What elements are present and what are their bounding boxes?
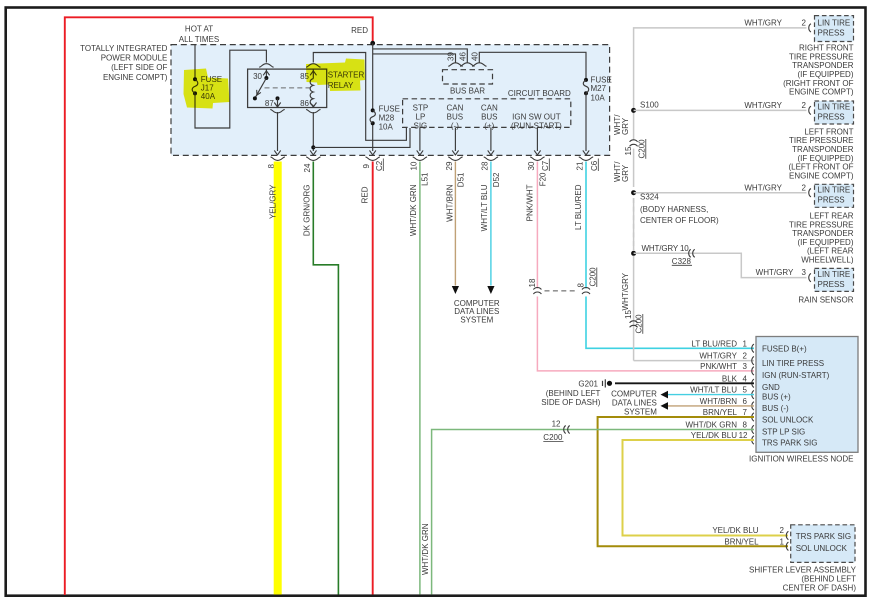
node pin 1 FUSED B(+) [692, 339, 808, 353]
svg-text:ALL TIMES: ALL TIMES [179, 35, 219, 44]
svg-text:DATA LINES: DATA LINES [612, 398, 657, 407]
svg-text:GRY: GRY [621, 117, 630, 135]
TIPM pin 24 exit cup [306, 157, 320, 161]
svg-text:(LEFT FRONT OF: (LEFT FRONT OF [788, 163, 853, 172]
fuse M27 10A [583, 78, 588, 95]
splice S100 [631, 101, 659, 113]
wire DK GRN/ORG (TIPM pin 24 to bottom with jog) [313, 162, 338, 595]
label CAN BUS (-) [446, 104, 463, 131]
svg-text:WHT/LT BLU: WHT/LT BLU [690, 386, 737, 395]
svg-text:CENTER OF FLOOR): CENTER OF FLOOR) [640, 216, 719, 225]
label pin 29 [445, 161, 454, 170]
connector C200 pin 12 on WHT/DK GRN wire [552, 420, 570, 434]
svg-text:(LEFT REAR: (LEFT REAR [807, 247, 854, 256]
label CAN BUS (+) [481, 104, 498, 131]
svg-text:C200: C200 [543, 433, 563, 442]
svg-text:STP LP SIG: STP LP SIG [762, 427, 805, 436]
svg-text:CIRCUIT BOARD: CIRCUIT BOARD [508, 89, 571, 98]
bus bar pin 39 terminal arch [448, 63, 462, 66]
svg-text:(BODY HARNESS,: (BODY HARNESS, [640, 205, 708, 214]
svg-text:LIN TIRE: LIN TIRE [818, 186, 851, 195]
svg-text:21: 21 [576, 161, 585, 170]
bus bar pin 40 terminal arch [472, 63, 486, 66]
wire bus bar pin 40 to fuse M27 [479, 52, 586, 79]
svg-text:C7: C7 [541, 160, 550, 171]
svg-text:WHT/GRY: WHT/GRY [699, 351, 737, 360]
svg-text:1: 1 [780, 537, 785, 546]
relay pin 87 stub with arrow [274, 96, 280, 107]
wire S100 to left front transponder [634, 109, 807, 111]
label left rear transponder caption [789, 212, 854, 265]
connector arc rain sensor pin 3 [809, 273, 811, 281]
label IGN SW OUT (RUN-START) [511, 113, 562, 131]
svg-text:FUSE: FUSE [379, 105, 400, 114]
svg-text:(BEHIND LEFT: (BEHIND LEFT [801, 574, 856, 583]
svg-text:RED: RED [361, 186, 370, 203]
label pin 30 [527, 161, 536, 170]
label WHT/BRN (rotated) [446, 184, 455, 222]
label CIRCUIT BOARD [508, 89, 571, 98]
connector arc left rear transponder pin 2 [809, 189, 811, 197]
relay mechanical link (dashed) [265, 87, 312, 89]
TIPM pin 29 exit cup [448, 157, 462, 161]
svg-text:DK GRN/ORG: DK GRN/ORG [303, 185, 312, 237]
svg-text:M28: M28 [379, 114, 395, 123]
svg-text:LIN TIRE: LIN TIRE [818, 18, 851, 27]
TIPM pin 28 exit cup [484, 157, 498, 161]
wire RED battery feed (left/top routing) [65, 17, 373, 595]
wire BRN/YEL sol unlock (node pin 7 to shifter pin 1) [598, 417, 788, 546]
svg-text:COMPUTER: COMPUTER [611, 389, 657, 398]
svg-text:RAIN SENSOR: RAIN SENSOR [798, 296, 853, 305]
label pin 40 (rotated) [470, 52, 479, 61]
wire YEL/DK BLU trs park sig (node pin 12 to shifter pin 2) [623, 440, 789, 536]
wire BLK ground from G201 to node pin 4 [615, 382, 754, 384]
connector C200 dashed bridge line [545, 290, 577, 292]
label pin 39 (rotated) [447, 52, 456, 61]
svg-text:28: 28 [480, 161, 489, 170]
label connector C200 (rotated, underlined) lower [634, 314, 643, 334]
relay label 87 [265, 99, 274, 108]
svg-text:LT BLU/RED: LT BLU/RED [692, 339, 738, 348]
label STARTER RELAY [328, 70, 365, 90]
svg-text:3: 3 [802, 268, 807, 277]
node RED junction dot on TIPM border [370, 41, 375, 46]
fuse J17 40A [192, 77, 198, 95]
svg-text:BUS BAR: BUS BAR [450, 87, 485, 96]
node pin 2 LIN TIRE PRESS [699, 351, 824, 367]
wire hot-at-all-times feed into fuse J17 [194, 45, 196, 79]
label DK GRN/ORG (rotated) [303, 185, 312, 237]
svg-text:TRS PARK SIG: TRS PARK SIG [762, 439, 817, 448]
label WHT/GRY left front pin 2 [744, 101, 806, 110]
wire relay pin 85 feed from red junction [313, 53, 406, 141]
label TOTALLY INTEGRATED POWER MODULE [80, 44, 168, 82]
label circuit F20 (rotated) [539, 172, 548, 186]
node pin 8 STP LP SIG [685, 421, 805, 437]
label IGNITION WIRELESS NODE [749, 455, 853, 464]
fuse M28 10A [370, 108, 375, 125]
label WHT/GRY left rear pin 2 [744, 183, 806, 192]
label WHT/ GRY (rotated, above C200) [613, 114, 630, 135]
TIPM pin 10 exit cup [413, 157, 427, 161]
svg-text:10A: 10A [379, 123, 394, 132]
svg-text:BLK: BLK [722, 374, 738, 383]
svg-text:TIRE PRESSURE: TIRE PRESSURE [789, 52, 853, 61]
module SHIFTER LEVER ASSEMBLY box [791, 525, 855, 563]
label HOT AT ALL TIMES [179, 24, 219, 44]
svg-text:WHT/GRY: WHT/GRY [621, 272, 630, 310]
wire RED (TIPM pin 9 to bottom) [372, 162, 374, 595]
svg-text:LEFT FRONT: LEFT FRONT [804, 127, 853, 136]
svg-text:PNK/WHT: PNK/WHT [526, 184, 535, 221]
arrow CAN(-) to computer data lines [452, 286, 459, 294]
svg-text:BUS: BUS [481, 113, 497, 122]
label pin 28 [480, 161, 489, 170]
svg-text:LIN TIRE PRESS: LIN TIRE PRESS [762, 359, 824, 368]
wire S324 to left rear transponder [634, 192, 807, 194]
svg-text:1: 1 [743, 339, 748, 348]
circuit board box [403, 99, 571, 128]
wire fuse M27 down to TIPM pin 21 [583, 93, 589, 155]
svg-text:WHT/BRN: WHT/BRN [700, 397, 738, 406]
svg-text:L51: L51 [421, 172, 430, 186]
svg-text:TRANSPONDER: TRANSPONDER [792, 229, 854, 238]
transponder box left front (LIN TIRE PRESS) [815, 101, 854, 124]
wire WHT/DK GRN stop lamp signal (TIPM pin 10 to bottom) [419, 162, 421, 595]
svg-text:PRESS: PRESS [818, 280, 845, 289]
svg-text:15: 15 [624, 146, 633, 155]
svg-text:24: 24 [303, 163, 312, 172]
TIPM pin 8 exit cup [271, 157, 285, 161]
svg-text:BRN/YEL: BRN/YEL [703, 408, 738, 417]
node pin 4 GND [722, 374, 780, 392]
relay label 86 [300, 99, 309, 108]
svg-text:2: 2 [802, 183, 807, 192]
svg-text:C200: C200 [637, 139, 646, 159]
svg-text:10: 10 [409, 161, 418, 170]
svg-text:S100: S100 [640, 101, 659, 110]
label SHIFTER LEVER ASSEMBLY caption [749, 565, 857, 592]
wire red junction to bus bar pin 46 [373, 49, 468, 63]
relay switch blade 30-87 [253, 78, 267, 100]
svg-text:3: 3 [743, 362, 748, 371]
transponder box left rear (LIN TIRE PRESS) [815, 184, 854, 207]
svg-text:9: 9 [362, 164, 371, 169]
svg-text:SYSTEM: SYSTEM [460, 315, 493, 324]
module IGNITION WIRELESS NODE box [756, 337, 858, 453]
svg-text:(+): (+) [484, 122, 494, 131]
svg-text:WHT/LT BLU: WHT/LT BLU [480, 184, 489, 231]
label WHT/LT BLU (rotated) [480, 184, 489, 231]
svg-text:F20: F20 [539, 172, 548, 186]
wire fuse J17 output to relay pin 30 [195, 50, 266, 128]
svg-text:(RIGHT FRONT OF: (RIGHT FRONT OF [783, 79, 853, 88]
relay coil 85-86 [310, 69, 316, 107]
svg-text:M27: M27 [591, 84, 607, 93]
svg-text:SHIFTER LEVER ASSEMBLY: SHIFTER LEVER ASSEMBLY [749, 565, 857, 574]
svg-text:PRESS: PRESS [818, 196, 845, 205]
svg-text:PRESS: PRESS [818, 112, 845, 121]
svg-text:PRESS: PRESS [818, 28, 845, 37]
svg-text:WHEELWELL): WHEELWELL) [801, 256, 854, 265]
relay K starter relay box [248, 69, 327, 107]
relay pin 85 terminal arch [306, 64, 320, 67]
svg-text:SOL UNLOCK: SOL UNLOCK [762, 415, 814, 424]
label RED (rotated) [361, 186, 370, 203]
wire red junction down to fuse M28 and TIPM pin 9 [370, 43, 376, 155]
wire WHT/DK GRN stop lamp sig (node pin 8 to bottom left) [432, 430, 754, 595]
label connector C2 (rotated, underlined) [375, 159, 384, 172]
wire red junction to bus bar pin 39 [373, 54, 456, 63]
label COMPUTER DATA LINES SYSTEM (under CAN arrows) [454, 299, 500, 324]
label WHT/GRY 10 at C328 [642, 244, 690, 253]
wire YEL/GRY thick (TIPM pin 8 to bottom) [274, 162, 282, 595]
label pin 9 [362, 164, 371, 169]
label right front transponder caption [783, 44, 854, 97]
svg-text:39: 39 [447, 52, 456, 61]
wire circuit board STP LP SIG to TIPM pin 10 [417, 127, 423, 154]
svg-text:YEL/GRY: YEL/GRY [269, 184, 278, 219]
svg-text:YEL/DK BLU: YEL/DK BLU [691, 431, 737, 440]
label LT BLU/RED (rotated) [574, 184, 583, 230]
label connector C328 (underlined) [672, 257, 692, 266]
svg-text:87: 87 [265, 99, 274, 108]
svg-text:WHT/GRY: WHT/GRY [744, 183, 782, 192]
arrow CAN(+) to computer data lines [487, 286, 494, 294]
svg-text:WHT/DK GRN: WHT/DK GRN [685, 421, 737, 430]
svg-text:2: 2 [743, 351, 748, 360]
svg-text:WHT/GRY: WHT/GRY [744, 18, 782, 27]
label PNK/WHT (rotated) [526, 184, 535, 221]
svg-text:C200: C200 [634, 314, 643, 334]
svg-text:IGNITION WIRELESS NODE: IGNITION WIRELESS NODE [749, 455, 853, 464]
svg-text:SYSTEM: SYSTEM [624, 407, 657, 416]
bus bar box [443, 70, 493, 84]
svg-text:18: 18 [528, 278, 537, 287]
label pin 46 (rotated) [458, 52, 467, 61]
svg-text:(LEFT SIDE OF: (LEFT SIDE OF [111, 63, 167, 72]
svg-text:46: 46 [458, 52, 467, 61]
sensor box rain sensor (LIN TIRE PRESS) [815, 268, 854, 291]
svg-text:7: 7 [743, 408, 748, 417]
svg-text:(IF EQUIPPED): (IF EQUIPPED) [797, 70, 853, 79]
svg-text:2: 2 [780, 526, 785, 535]
label left front transponder caption [788, 127, 853, 180]
svg-text:30: 30 [527, 161, 536, 170]
node pin 5 BUS (+) [690, 386, 791, 402]
wire WHT/LT BLU bus+ to computer data lines arrow [668, 394, 754, 396]
svg-text:LIN TIRE: LIN TIRE [818, 270, 851, 279]
label connector C200 (rotated, underlined) at LT BLU/RED [588, 267, 597, 287]
node pin 3 IGN (RUN-START) [700, 362, 829, 380]
svg-text:FUSED B(+): FUSED B(+) [762, 345, 807, 354]
svg-text:HOT AT: HOT AT [185, 24, 213, 33]
label connector C200 (rotated, underlined) on LIN bus [637, 139, 646, 159]
label connector C7 (rotated, underlined) [541, 159, 550, 172]
svg-text:2: 2 [802, 18, 807, 27]
label connector C200 (underlined) on WHT/DK GRN [543, 433, 563, 442]
label pin 24 [303, 163, 312, 172]
label BUS BAR [450, 87, 485, 96]
wire circuit board IGN SW OUT to TIPM pin 30 [534, 127, 540, 154]
relay pin 30 wire stub and arrow [263, 69, 269, 80]
label WHT/GRY (rotated, below C328 dot) [621, 272, 630, 310]
wire circuit board CAN(+) to TIPM pin 28 [488, 127, 494, 154]
svg-text:ENGINE COMPT): ENGINE COMPT) [789, 171, 854, 180]
svg-text:LIN TIRE: LIN TIRE [818, 102, 851, 111]
relay pin 87 exit cup [270, 109, 284, 113]
TIPM pin 30 exit cup [530, 157, 544, 161]
svg-text:TRS PARK SIG: TRS PARK SIG [796, 532, 851, 541]
label circuit D51 (rotated) [457, 172, 466, 187]
svg-text:CAN: CAN [446, 104, 463, 113]
label RAIN SENSOR caption [798, 296, 853, 305]
svg-text:C2: C2 [375, 160, 384, 171]
svg-text:C200: C200 [588, 267, 597, 287]
label WHT/DK GRN lower (rotated) [421, 523, 430, 575]
shifter pin 2 TRS PARK SIG [712, 526, 851, 541]
label circuit L51 (rotated) [421, 172, 430, 186]
wire LT BLU/RED fused B+ (TIPM pin 21 down through C200 to node pin 1) [586, 162, 754, 349]
svg-text:YEL/DK BLU: YEL/DK BLU [712, 526, 758, 535]
highlight marker over STARTER RELAY [306, 59, 365, 92]
svg-text:86: 86 [300, 99, 309, 108]
label G201 (BEHIND LEFT SIDE OF DASH) [541, 379, 600, 407]
svg-text:G201: G201 [578, 379, 598, 388]
relay label 85 [300, 72, 309, 81]
highlight marker over fuse J17 [184, 69, 230, 109]
arrow bus+ to computer data lines [661, 391, 669, 399]
label FUSE J17 40A [201, 75, 222, 101]
label COMPUTER DATA LINES SYSTEM (node side) [611, 389, 657, 416]
connector arc right front transponder pin 2 [809, 24, 811, 32]
svg-text:TIRE PRESSURE: TIRE PRESSURE [789, 220, 853, 229]
svg-text:WHT/GRY 10: WHT/GRY 10 [642, 244, 690, 253]
connector C200 pin 15 on LIN bus [624, 140, 638, 156]
svg-text:CAN: CAN [481, 104, 498, 113]
wire WHT/GRY LIN bus main vertical [634, 28, 807, 361]
svg-text:BUS (+): BUS (+) [762, 393, 791, 402]
svg-text:S324: S324 [640, 193, 659, 202]
svg-text:STP: STP [413, 104, 429, 113]
svg-text:CENTER OF DASH): CENTER OF DASH) [783, 583, 857, 592]
connector arc left front transponder pin 2 [809, 106, 811, 114]
svg-text:TRANSPONDER: TRANSPONDER [792, 145, 854, 154]
svg-text:TRANSPONDER: TRANSPONDER [792, 61, 854, 70]
svg-text:ENGINE COMPT): ENGINE COMPT) [789, 88, 854, 97]
svg-text:SOL UNLOCK: SOL UNLOCK [796, 544, 848, 553]
wire C328 branch to rain sensor [634, 253, 807, 277]
label pin 8 [267, 164, 276, 169]
label YEL/GRY (rotated) [269, 184, 278, 219]
svg-text:LT BLU/RED: LT BLU/RED [574, 184, 583, 230]
svg-text:IGN SW OUT: IGN SW OUT [512, 113, 561, 122]
wire WHT/BRN bus- to computer data lines arrow [668, 405, 754, 407]
bus bar pin 46 terminal arch [460, 63, 474, 66]
svg-text:D52: D52 [492, 172, 501, 187]
relay label 30 [253, 72, 262, 81]
svg-text:29: 29 [445, 161, 454, 170]
label RED [351, 26, 368, 35]
svg-text:WHT/GRY: WHT/GRY [744, 101, 782, 110]
svg-text:6: 6 [743, 397, 748, 406]
svg-text:30: 30 [253, 72, 262, 81]
connector C328 symbol [689, 249, 695, 257]
svg-text:40: 40 [470, 52, 479, 61]
label pin 21 [576, 161, 585, 170]
svg-text:4: 4 [743, 374, 748, 383]
svg-text:WHT/DK GRN: WHT/DK GRN [409, 184, 418, 236]
svg-text:5: 5 [743, 386, 748, 395]
svg-text:(RUN-START): (RUN-START) [511, 122, 562, 131]
svg-text:D51: D51 [457, 172, 466, 187]
label connector C6 (rotated, underlined) [590, 159, 599, 172]
label STP LP SIG [413, 104, 429, 131]
ground G201 symbol [603, 379, 613, 387]
transponder box right front (LIN TIRE PRESS) [815, 16, 854, 42]
svg-text:PNK/WHT: PNK/WHT [700, 362, 737, 371]
connector C200 pin 18 on PNK/WHT wire [528, 278, 542, 294]
svg-text:12: 12 [739, 431, 748, 440]
svg-text:BRN/YEL: BRN/YEL [724, 537, 759, 546]
relay pin 86 exit cup [306, 109, 320, 113]
label WHT/DK GRN (rotated) [409, 184, 418, 236]
module TIPM box (TOTALLY INTEGRATED POWER MODULE) [171, 45, 610, 156]
node pin 7 SOL UNLOCK [703, 408, 814, 424]
svg-text:12: 12 [552, 420, 561, 429]
svg-text:ENGINE COMPT): ENGINE COMPT) [103, 73, 168, 82]
svg-text:TOTALLY INTEGRATED: TOTALLY INTEGRATED [80, 44, 168, 53]
svg-text:8: 8 [743, 421, 748, 430]
svg-text:15: 15 [624, 310, 633, 319]
arrow bus- to computer data lines [661, 402, 669, 410]
junction dot C328 branch [631, 251, 636, 256]
wire relay pin 87 down to TIPM pin 8 [274, 112, 280, 155]
label FUSE M27 10A [591, 75, 612, 102]
svg-text:C328: C328 [672, 257, 692, 266]
label WHT/ GRY (rotated, below C200) [613, 161, 630, 182]
wire relay pin 86 down to TIPM pin 24 with branch to circuit board [310, 112, 410, 155]
svg-text:8: 8 [576, 283, 585, 288]
splice S324 [631, 190, 719, 225]
svg-text:WHT/GRY: WHT/GRY [756, 268, 794, 277]
wire circuit board CAN(-) to TIPM pin 29 [452, 127, 458, 154]
TIPM pin 9 exit cup [366, 157, 380, 161]
shifter pin 1 SOL UNLOCK [724, 537, 847, 552]
node pin 12 TRS PARK SIG [691, 431, 818, 448]
TIPM pin 21 exit cup [579, 157, 593, 161]
svg-text:TIRE PRESSURE: TIRE PRESSURE [789, 136, 853, 145]
svg-text:GRY: GRY [621, 164, 630, 182]
wire WHT/LT BLU CAN(+) (TIPM pin 28 down to arrow) [490, 162, 492, 286]
svg-text:2: 2 [802, 101, 807, 110]
svg-text:10A: 10A [591, 93, 606, 102]
svg-text:C6: C6 [590, 160, 599, 171]
svg-text:(IF EQUIPPED): (IF EQUIPPED) [797, 238, 853, 247]
connector C200 pin 8 on LT BLU/RED wire [576, 283, 590, 295]
wire LIN bus corner into node pin 2 [634, 360, 754, 362]
svg-text:BUS (-): BUS (-) [762, 404, 789, 413]
svg-text:WHT/DK GRN: WHT/DK GRN [421, 523, 430, 575]
svg-text:(BEHIND LEFT: (BEHIND LEFT [546, 389, 601, 398]
svg-text:(IF EQUIPPED): (IF EQUIPPED) [797, 154, 853, 163]
svg-text:RIGHT FRONT: RIGHT FRONT [799, 44, 854, 53]
wire WHT/BRN CAN(-) (TIPM pin 29 down to arrow) [454, 162, 456, 286]
label FUSE M28 10A [379, 105, 400, 132]
label pin 10 [409, 161, 418, 170]
label WHT/GRY top pin 2 [744, 18, 806, 27]
